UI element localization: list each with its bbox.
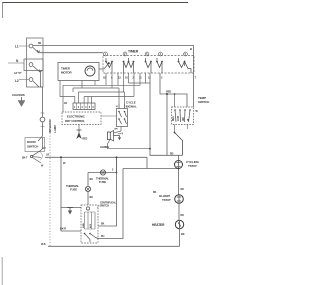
svg-text:REG: REG xyxy=(173,116,175,121)
timer box U-TIMER xyxy=(103,56,194,74)
switch door contacts xyxy=(30,138,42,164)
connector J1 pins 123456 xyxy=(73,103,95,110)
label L8 D xyxy=(14,71,22,75)
label INTERIOR LAMP vertical xyxy=(48,119,57,133)
wire EDC to cycle signal xyxy=(101,115,117,117)
label RED temp feed xyxy=(166,90,171,94)
label LR xyxy=(46,154,49,157)
svg-text:BK-T: BK-T xyxy=(22,157,28,160)
timer contact group A xyxy=(105,58,113,73)
ground motor frame xyxy=(67,208,73,215)
wire top border scan line xyxy=(2,2,188,4)
svg-text:MAIN: MAIN xyxy=(82,223,85,228)
svg-text:SWITCH: SWITCH xyxy=(198,100,209,104)
svg-text:HEATER: HEATER xyxy=(152,223,165,227)
svg-text:RD: RD xyxy=(170,153,174,156)
label 2 on fuse wire xyxy=(112,168,114,172)
svg-text:FUSE: FUSE xyxy=(99,180,106,184)
svg-text:BK: BK xyxy=(153,191,157,194)
svg-text:BR: BR xyxy=(115,129,118,131)
svg-text:L1: L1 xyxy=(15,45,19,49)
wire stub red to temp box xyxy=(174,93,176,107)
wire white neutral down to motor xyxy=(61,157,81,231)
label RD above heater xyxy=(181,214,185,217)
svg-text:BU: BU xyxy=(90,195,94,199)
svg-text:1B: 1B xyxy=(64,102,67,105)
label W temp xyxy=(196,110,199,113)
timer terminal circle 3 xyxy=(145,52,149,56)
wire temp common riser xyxy=(166,93,168,155)
label B at timer right xyxy=(190,47,192,51)
ground chime xyxy=(114,134,122,141)
label BU motor out xyxy=(101,235,105,238)
wire L2 lead xyxy=(19,79,29,81)
svg-text:BU: BU xyxy=(90,177,94,181)
svg-text:RED: RED xyxy=(83,138,88,141)
wire timer to temp switch RED xyxy=(160,73,187,107)
svg-text:BK: BK xyxy=(181,232,185,236)
wire left scan tick top xyxy=(2,3,4,19)
label BU fuse top xyxy=(90,177,94,181)
wire mid return run xyxy=(123,168,179,170)
label BK-T xyxy=(22,157,28,160)
fuse F1 thermal xyxy=(100,170,105,175)
label W blade xyxy=(41,165,44,168)
drive motor M2 box xyxy=(81,205,98,243)
label THERMAL FUSE left xyxy=(66,184,79,192)
label BR chime lead xyxy=(115,129,118,131)
switch blade N terminal xyxy=(33,66,42,87)
wire EDC stub down xyxy=(78,125,80,132)
timer terminal circle 1 xyxy=(104,52,108,56)
svg-text:B: B xyxy=(190,47,192,51)
timer stub label 11 xyxy=(139,76,142,80)
timer contact group C xyxy=(145,58,163,73)
label CHASSIS xyxy=(12,93,25,97)
node L1 xyxy=(15,45,19,49)
thermostat cycling xyxy=(175,155,183,172)
svg-text:MOTOR: MOTOR xyxy=(61,71,73,75)
ground EDC red xyxy=(77,130,82,138)
label CENTRIFUGAL SWITCH xyxy=(97,202,117,209)
svg-text:FUSE: FUSE xyxy=(70,188,77,192)
wire door switch output W run xyxy=(45,156,147,158)
svg-text:BK: BK xyxy=(101,223,105,226)
node L2 xyxy=(15,79,19,83)
svg-text:L2: L2 xyxy=(15,79,19,83)
label BU fuse bottom xyxy=(90,195,94,199)
ground chassis xyxy=(18,97,25,107)
buzzer chime LS1 xyxy=(108,131,114,142)
wire L1 top run to right side xyxy=(33,46,194,108)
switch blade L2 terminal xyxy=(33,81,39,87)
timer stub label 12b xyxy=(148,76,151,80)
label TEMP SWITCH xyxy=(198,96,209,104)
timer stub label 9 xyxy=(111,76,113,80)
svg-text:RED: RED xyxy=(166,90,171,94)
lamp DS1 interior xyxy=(40,113,45,127)
label 1B connector xyxy=(64,102,67,105)
svg-text:AIR: AIR xyxy=(182,117,185,121)
wire L1 blade to timer terminal 1 xyxy=(39,52,104,54)
switch blade L1 to timer xyxy=(33,48,40,53)
svg-text:RD: RD xyxy=(181,188,185,191)
thermostat hi-limit xyxy=(175,195,184,204)
switch temp output blade xyxy=(174,125,188,156)
timer stub label 2b xyxy=(161,76,163,80)
label V chime xyxy=(122,133,124,136)
wire ground link motor xyxy=(61,207,81,209)
label CYCLING TSTAT xyxy=(186,160,200,168)
wire N lead xyxy=(8,62,24,64)
svg-text:DRY CONTROL: DRY CONTROL xyxy=(65,119,85,123)
svg-text:RD: RD xyxy=(181,214,185,217)
wire hilimit to heater xyxy=(178,203,180,220)
heater HTR1 xyxy=(175,220,183,228)
harness bus wires under timer xyxy=(60,73,150,112)
label BK top wire xyxy=(38,42,42,45)
label BK-R motor lead xyxy=(60,227,66,231)
svg-text:TSTAT: TSTAT xyxy=(162,198,171,202)
wire bottom return xyxy=(48,245,180,247)
svg-text:BK: BK xyxy=(38,42,42,45)
wire L1 lead xyxy=(19,45,29,47)
terminal block TB xyxy=(24,38,43,87)
wire chime to right riser xyxy=(108,140,151,149)
svg-text:ELECTRONIC: ELECTRONIC xyxy=(67,115,86,119)
timer stub label 10 xyxy=(125,76,128,80)
wire lamp to door switch xyxy=(38,122,43,141)
label RD tstat top xyxy=(170,153,174,156)
timer stub label 2a xyxy=(133,76,135,80)
door switch S1 box xyxy=(25,138,45,152)
svg-text:W-B: W-B xyxy=(41,243,46,246)
label W-B bottom xyxy=(41,243,46,246)
svg-text:BK-R: BK-R xyxy=(60,227,66,231)
timer terminal circle 2 xyxy=(123,52,127,56)
svg-text:LAMP: LAMP xyxy=(53,125,57,133)
svg-text:SIGNAL: SIGNAL xyxy=(126,105,137,109)
svg-text:LR: LR xyxy=(46,154,49,157)
electronic dry control U2 xyxy=(62,112,101,125)
label TIMER xyxy=(128,50,139,54)
svg-text:BU: BU xyxy=(101,235,105,238)
wire tstat link xyxy=(178,168,180,195)
label RED under EDC xyxy=(83,138,88,141)
svg-text:SWITCH: SWITCH xyxy=(100,205,109,208)
label BK motor out xyxy=(101,223,105,226)
temp switch S3 box xyxy=(172,107,194,125)
wire heater return xyxy=(179,229,181,247)
timer stub label T xyxy=(195,76,197,80)
label THERMAL FUSE right xyxy=(96,177,109,185)
wire timer motor to timer contact xyxy=(99,62,110,69)
wire fuse to motor xyxy=(87,192,89,205)
svg-text:L8 "D": L8 "D" xyxy=(14,71,22,75)
console boundary dashed line xyxy=(49,130,51,246)
timer motor box M1 xyxy=(58,63,99,81)
switch cycle signal S2 xyxy=(117,104,128,127)
wire motor BK out xyxy=(98,156,117,226)
timer contact group D xyxy=(178,58,191,73)
wire door drop to return xyxy=(146,157,148,168)
wire thermal fuse branch xyxy=(88,173,117,187)
timer stub label 12 xyxy=(118,76,121,80)
svg-text:TSTAT: TSTAT xyxy=(188,164,197,168)
timer terminal circle 4 xyxy=(159,52,163,56)
timer stub label 1B xyxy=(103,76,106,80)
wire timer riser to tstat xyxy=(149,73,182,155)
svg-text:TIMER: TIMER xyxy=(128,50,139,54)
page background xyxy=(0,0,218,285)
wire left scan tick bottom xyxy=(1,257,3,285)
svg-text:CHASSIS: CHASSIS xyxy=(12,93,25,97)
label HEATER xyxy=(152,223,165,227)
svg-text:DOOR: DOOR xyxy=(27,140,37,144)
wire motor BU out xyxy=(98,169,123,239)
label GY xyxy=(43,147,47,150)
timer contact group B xyxy=(123,58,135,73)
label CYCLE SIGNAL xyxy=(126,101,137,109)
svg-text:GY: GY xyxy=(43,147,47,150)
timer terminal circle 5 xyxy=(184,52,188,56)
label CHIME xyxy=(100,145,109,149)
label cycle leads xyxy=(116,106,128,108)
label BK heater bottom xyxy=(181,232,185,236)
wire lamp drop from terminal block xyxy=(41,87,43,117)
label temp positions vertical xyxy=(173,115,190,121)
fuse F2 thermal xyxy=(85,186,90,191)
svg-text:SWITCH: SWITCH xyxy=(27,145,38,149)
node W junction xyxy=(60,156,66,165)
node N xyxy=(16,59,19,63)
wire cycle signal to chime xyxy=(114,127,122,134)
node fuse riser junction xyxy=(116,157,118,173)
label HI-LIMIT TSTAT xyxy=(159,194,171,202)
label RD above hilimit xyxy=(181,188,185,191)
label BK mid xyxy=(153,191,157,194)
